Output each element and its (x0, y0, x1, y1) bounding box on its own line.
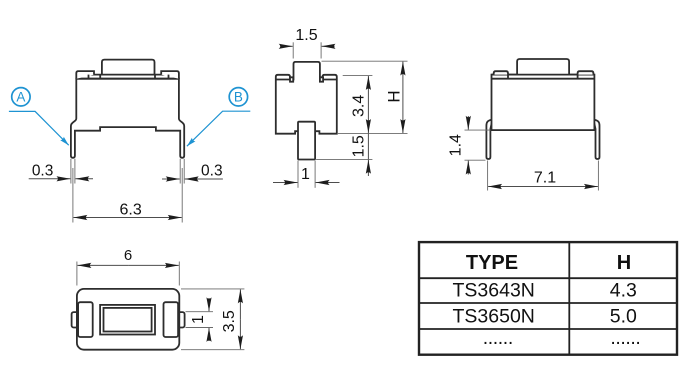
right view left tab (494, 71, 508, 74)
front view right mounting tab (161, 71, 179, 79)
front view body outline with legs (71, 79, 184, 158)
svg-text:5.0: 5.0 (610, 305, 637, 327)
front view fold tick right (168, 75, 170, 79)
leader line A (9, 111, 69, 145)
leader line B (187, 111, 250, 146)
table row line 2 (419, 302, 677, 304)
dimension 1 extension lines (bottom view) (186, 311, 214, 313)
bottom view button frame inner (104, 308, 152, 332)
front view button base tick right (154, 75, 156, 79)
svg-text:6: 6 (124, 247, 132, 264)
front view button base tick left (99, 75, 101, 79)
extension line body bottom shared 3.4 H 1.5 (338, 132, 408, 134)
right view fold tick right (577, 75, 579, 79)
dimension 6.3 line (73, 217, 127, 219)
front view fold tick left (88, 75, 90, 79)
dimension 1.5 lower bottom arrow (367, 160, 369, 176)
dimension 0.3 left arrows (29, 178, 71, 180)
svg-text:6.3: 6.3 (119, 201, 141, 218)
dimension 1 arrows (273, 182, 298, 184)
svg-text:1.4: 1.4 (448, 134, 465, 156)
svg-text:1.5: 1.5 (295, 27, 317, 44)
right view button (517, 59, 569, 75)
svg-text:B: B (234, 90, 243, 105)
svg-text:1.5: 1.5 (351, 135, 368, 157)
side view flange line right (320, 79, 337, 81)
label B circle (229, 88, 247, 106)
svg-text:......: ...... (483, 327, 513, 349)
svg-text:1: 1 (190, 315, 207, 324)
svg-text:......: ...... (610, 327, 640, 349)
table column divider (568, 242, 570, 355)
dimension 1.5 top extension lines (292, 42, 294, 58)
bottom view right pad (164, 302, 179, 337)
dimension 1 arrows (bottom view) (208, 298, 210, 311)
right view fold tick left (507, 75, 509, 79)
bottom view right nub (178, 312, 185, 327)
front view cover strip line bottom (76, 78, 179, 80)
svg-text:7.1: 7.1 (534, 169, 556, 186)
svg-text:0.3: 0.3 (201, 162, 223, 179)
bottom view left pad (78, 302, 93, 337)
dimension H line and arrows (402, 62, 404, 97)
dimension 1.5 lower line (367, 133, 369, 159)
svg-text:TS3643N: TS3643N (453, 280, 535, 302)
svg-text:TS3650N: TS3650N (453, 305, 535, 327)
dimension 1.4 arrows (467, 116, 469, 130)
right view right tab (578, 71, 594, 74)
front view cover strip line top (76, 74, 179, 76)
dimension 3.5 arrows (239, 289, 241, 319)
dimension 6 line (77, 264, 128, 266)
svg-text:1: 1 (301, 166, 310, 183)
right view flange line (492, 78, 595, 80)
right leg extension lines (179, 159, 181, 184)
extension line body top (3.4) (343, 75, 373, 77)
front view left mounting tab (76, 71, 94, 79)
front view button (102, 60, 155, 75)
stem extension lines (1) (297, 161, 299, 188)
svg-text:3.5: 3.5 (221, 310, 238, 332)
dimension 3.4 line and arrows (367, 76, 369, 104)
bottom view button frame outer (100, 305, 155, 335)
svg-text:A: A (16, 90, 25, 105)
extension line stem bottom (1.5) (316, 158, 372, 160)
svg-text:H: H (617, 252, 631, 274)
left leg extension lines (70, 159, 72, 184)
table row line 3 (419, 328, 677, 330)
side view body (276, 62, 337, 134)
side view stem (298, 122, 315, 160)
svg-text:3.4: 3.4 (351, 95, 368, 117)
right view right leg (593, 120, 599, 160)
svg-text:TYPE: TYPE (466, 252, 518, 274)
right view left leg (486, 120, 492, 160)
dimension 7.1 extension lines (487, 161, 489, 191)
bottom view left nub (72, 312, 79, 327)
label A circle (12, 88, 30, 106)
dimension 0.3 right arrows (162, 178, 180, 180)
svg-text:4.3: 4.3 (610, 280, 637, 302)
side view claw bump left (290, 77, 293, 81)
side view flange line left (276, 79, 294, 81)
dimension 6 extension lines (76, 262, 78, 286)
table outer border (419, 242, 677, 355)
right view cover line top (492, 74, 595, 76)
extension line button top (H) (322, 60, 408, 62)
side view claw bump right (320, 77, 323, 81)
svg-text:0.3: 0.3 (32, 163, 54, 180)
dimension 3.5 extension lines (181, 288, 244, 290)
dimension 1.4 extension lines (465, 129, 491, 131)
table row line 1 (419, 277, 677, 279)
right view body (492, 75, 595, 131)
bottom view body (77, 289, 179, 350)
svg-text:H: H (385, 90, 404, 102)
dimension 1.5 top arrows (281, 45, 293, 47)
dimension 7.1 line (488, 186, 543, 188)
